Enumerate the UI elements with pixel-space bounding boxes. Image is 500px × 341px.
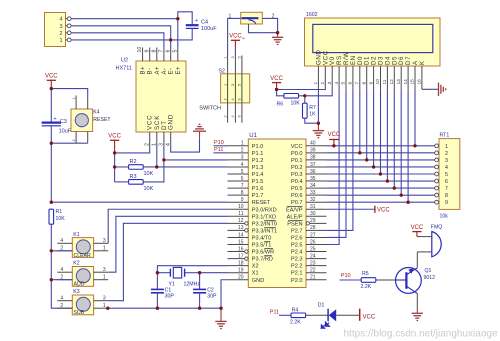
wire VCC rail corner to R3 — [115, 181, 129, 183]
node: VCC/K4/C3 top — [50, 87, 53, 90]
svg-text:4: 4 — [60, 267, 63, 273]
svg-text:A+: A+ — [155, 66, 161, 74]
svg-text:1: 1 — [103, 246, 106, 252]
wire C3 bottom to reset node — [50, 126, 52, 203]
resistor R6 10K — [277, 94, 301, 108]
node: K2 pin2 on rail — [50, 278, 53, 281]
svg-text:17: 17 — [238, 253, 244, 259]
nodes: D0-D7 junctions on P0 rows, A on VCC row — [358, 144, 417, 204]
wire R3 up to DT node — [143, 160, 164, 182]
ground (LCD backlight K, right-pointing) — [439, 83, 446, 96]
U1 left pins 1-20 stubs + numbers + names — [228, 141, 277, 284]
svg-text:+: + — [53, 117, 56, 123]
wire X2 (pin18) to crystal left / C1 — [157, 266, 227, 290]
svg-text:K1: K1 — [73, 232, 79, 238]
svg-text:P2.2: P2.2 — [291, 264, 303, 270]
capacitor C2 30P — [193, 287, 217, 299]
ground (HX711, inverted pyramid) — [193, 124, 206, 138]
wire Q1 collector to ground — [416, 293, 418, 308]
svg-text:31: 31 — [310, 204, 316, 210]
svg-text:D1: D1 — [318, 303, 325, 309]
svg-text:4: 4 — [60, 296, 63, 302]
svg-text:25: 25 — [310, 246, 316, 252]
capacitor C1 30P — [151, 287, 174, 299]
svg-text:3: 3 — [327, 82, 333, 85]
svg-text:P0.1: P0.1 — [291, 158, 303, 164]
svg-text:1: 1 — [241, 141, 244, 147]
svg-text:12MHz: 12MHz — [184, 282, 201, 288]
power VCC port (EA/VP) — [375, 206, 390, 214]
svg-text:P2.7: P2.7 — [291, 228, 303, 234]
svg-text:P1.2: P1.2 — [252, 158, 264, 164]
resistor network RT1 10k — [435, 132, 460, 219]
crystal Y1 12MHz — [157, 267, 200, 287]
svg-text:5: 5 — [445, 172, 448, 178]
wire LCD A down to VCC row — [414, 89, 416, 146]
node: J1.1 / J1.3 / C4- / E- junction — [169, 38, 172, 41]
node: K1 pin2 on rail — [50, 249, 53, 252]
svg-text:FMQ: FMQ — [431, 224, 443, 230]
svg-text:22: 22 — [310, 268, 316, 274]
net label P11 (LED drive) — [270, 309, 291, 315]
svg-text:1: 1 — [59, 38, 62, 44]
wire J1 pin2 to HX711 A- — [71, 33, 164, 48]
svg-text:2: 2 — [59, 31, 62, 37]
node: RESET wire tap — [50, 201, 53, 204]
svg-text:P0.4: P0.4 — [291, 179, 303, 185]
wire rail VCC to C3 — [50, 89, 52, 123]
svg-text:X2: X2 — [252, 264, 259, 270]
svg-text:39: 39 — [310, 148, 316, 154]
svg-text:30: 30 — [310, 211, 316, 217]
svg-text:P10: P10 — [214, 140, 224, 146]
LCD pins 1-16 stubs + rotated names + numbers — [313, 50, 426, 90]
resistor R4 2.2K — [290, 307, 306, 325]
svg-text:5: 5 — [341, 82, 347, 85]
svg-text:34: 34 — [310, 183, 316, 189]
svg-text:5: 5 — [172, 50, 178, 53]
svg-text:R5: R5 — [362, 271, 369, 277]
wire VCC rail down to R2/R3 — [114, 153, 116, 182]
svg-text:S2: S2 — [219, 69, 225, 75]
resistor R7 1K (vertical) — [303, 103, 317, 118]
button K1 CLEAR — [57, 232, 108, 259]
svg-text:P3.6/WR: P3.6/WR — [252, 250, 274, 256]
svg-text:2: 2 — [241, 148, 244, 154]
svg-text:P3.7/RD: P3.7/RD — [252, 257, 273, 263]
svg-text:7: 7 — [241, 183, 244, 189]
slide switch S2 (power jumper) — [229, 12, 275, 39]
svg-text:P0.6: P0.6 — [291, 193, 303, 199]
svg-text:10K: 10K — [56, 216, 66, 222]
ground (Q1 collector) — [412, 309, 423, 321]
svg-text:VCC: VCC — [45, 73, 58, 79]
svg-text:2: 2 — [72, 139, 76, 141]
svg-text:RESET: RESET — [252, 200, 271, 206]
svg-text:3: 3 — [59, 24, 62, 30]
svg-text:P10: P10 — [341, 273, 351, 279]
wire jumper pin2 down to ground — [262, 18, 277, 32]
node: VCC stem on pin40 row — [332, 144, 335, 147]
svg-text:9: 9 — [445, 200, 448, 206]
wire R7 bottom to LCD GND / ground — [305, 118, 319, 123]
svg-text:4: 4 — [165, 143, 171, 146]
wires P0.0-P0.7 rows to RT1 pins 2-9 — [327, 153, 435, 202]
wire HX711 SCK down — [156, 147, 158, 167]
svg-text:7: 7 — [159, 50, 165, 53]
buzzer FMQ — [417, 224, 442, 256]
resistor R3 10K — [129, 174, 154, 192]
node: C3/K4 bottom reset node — [50, 142, 53, 145]
wire Q1 emitter up to FMQ — [416, 252, 418, 268]
svg-text:12: 12 — [238, 218, 244, 224]
svg-text:CLEAR: CLEAR — [74, 253, 92, 259]
svg-text:38: 38 — [310, 155, 316, 161]
svg-text:P2.6: P2.6 — [291, 235, 303, 241]
svg-text:7: 7 — [445, 186, 448, 192]
svg-text:26: 26 — [310, 239, 316, 245]
svg-text:P2.3: P2.3 — [291, 257, 303, 263]
svg-text:GND: GND — [252, 278, 264, 284]
svg-text:K2: K2 — [73, 261, 79, 267]
svg-text:9: 9 — [241, 197, 244, 203]
svg-text:P1.4: P1.4 — [252, 172, 264, 178]
svg-text:C4: C4 — [201, 20, 208, 26]
svg-text:U1: U1 — [249, 133, 257, 139]
wire K3 pin1 to GND rail — [108, 307, 221, 309]
svg-text:C1: C1 — [165, 287, 172, 293]
svg-text:P0.2: P0.2 — [291, 165, 303, 171]
node: R6 / R7 / V0 — [303, 94, 306, 97]
wire LCD R/W to U1 P2.6 — [327, 89, 347, 237]
svg-text:3: 3 — [231, 56, 235, 58]
svg-text:9: 9 — [144, 50, 150, 53]
svg-text:4: 4 — [59, 17, 62, 23]
svg-text:C2: C2 — [207, 287, 214, 293]
svg-text:P11: P11 — [214, 147, 223, 153]
svg-text:8: 8 — [361, 82, 367, 85]
svg-text:37: 37 — [310, 162, 316, 168]
resistor R1 10K (vertical) — [49, 209, 65, 224]
svg-text:P3.3/INT1: P3.3/INT1 — [252, 228, 277, 234]
capacitor C4 100uF — [186, 18, 217, 32]
svg-text:14: 14 — [403, 79, 409, 85]
svg-text:VCC: VCC — [377, 207, 390, 213]
power VCC symbol (U1 pin 40) — [328, 132, 341, 146]
switch S2 (6-pin DIP) SWITCH — [199, 56, 249, 123]
power VCC symbol (switch S1 pin3) — [229, 34, 242, 48]
svg-text:SCK: SCK — [154, 115, 161, 130]
svg-text:E+: E+ — [176, 66, 182, 74]
svg-text:29: 29 — [310, 218, 316, 224]
wire K3 pin3 to U1 P3.2 — [108, 223, 227, 300]
svg-text:X1: X1 — [252, 271, 259, 277]
svg-text:1: 1 — [445, 144, 448, 150]
svg-text:R7: R7 — [309, 105, 316, 111]
svg-text:10: 10 — [375, 79, 381, 85]
wire VCC node to LCD VCC pin2 — [277, 88, 326, 90]
wire J1 pin4 to HX711 E+ and C4+ — [71, 19, 178, 48]
wire LCD EN to U1 P2.7 — [327, 89, 353, 230]
svg-text:2: 2 — [60, 303, 63, 309]
wire VCC rail to R2 — [115, 166, 129, 168]
wires LCD D0-D7 down to P0.0-P0.7 rows — [360, 89, 408, 202]
svg-text:7: 7 — [355, 82, 361, 85]
svg-text:4: 4 — [231, 115, 235, 117]
svg-text:K: K — [419, 60, 426, 65]
svg-text:6: 6 — [348, 82, 354, 85]
resistor R5 2.2K — [361, 271, 376, 290]
wire HX711 GND to ground — [171, 139, 200, 152]
svg-text:R2: R2 — [130, 159, 137, 165]
svg-text:P11: P11 — [270, 309, 279, 315]
svg-text:VCC: VCC — [270, 76, 283, 82]
svg-text:33: 33 — [310, 190, 316, 196]
svg-text:20: 20 — [238, 275, 244, 281]
svg-text:6: 6 — [241, 176, 244, 182]
svg-text:30P: 30P — [165, 294, 175, 300]
svg-text:P2.0: P2.0 — [291, 278, 303, 284]
svg-text:P1.6: P1.6 — [252, 186, 264, 192]
svg-text:P3.5/T1: P3.5/T1 — [252, 243, 272, 249]
svg-text:11: 11 — [382, 79, 388, 84]
svg-text:15: 15 — [238, 239, 244, 245]
svg-text:23: 23 — [310, 260, 316, 266]
svg-text:4: 4 — [334, 82, 340, 85]
svg-text:EA/VP: EA/VP — [286, 207, 303, 213]
svg-text:8: 8 — [241, 190, 244, 196]
svg-text:+: + — [195, 18, 198, 24]
svg-text:K4: K4 — [93, 109, 99, 115]
U2 top pins B+ B- A+ A- E- E+ (pins 10..5) — [137, 47, 182, 75]
svg-text:16: 16 — [238, 246, 244, 252]
wire reset node to U1 RESET pin 9 — [51, 201, 227, 203]
node: C1 on rail — [156, 307, 159, 310]
svg-text:13: 13 — [396, 79, 402, 85]
svg-text:24: 24 — [310, 253, 316, 259]
svg-text:1: 1 — [313, 82, 319, 85]
svg-text:P2.4: P2.4 — [291, 250, 303, 256]
node: crystal right / X1 / C2 — [198, 271, 201, 274]
svg-text:B-: B- — [148, 68, 154, 75]
wire J1 pin1 / C4 bottom / HX711 E- — [71, 28, 192, 47]
node: R2 left on rail — [113, 165, 116, 168]
svg-text:6: 6 — [238, 115, 242, 117]
svg-text:R1: R1 — [56, 209, 63, 215]
svg-text:8: 8 — [445, 193, 448, 199]
svg-text:13: 13 — [238, 225, 244, 231]
wire R7 top to R6/V0 node — [304, 96, 306, 103]
svg-text:VCC: VCC — [229, 34, 242, 40]
svg-text:35: 35 — [310, 176, 316, 182]
svg-text:RT1: RT1 — [440, 132, 450, 138]
svg-text:3: 3 — [241, 155, 244, 161]
power VCC symbol (reset circuit) — [45, 73, 58, 88]
wire VCC row pin40 to RT1 pin1 — [327, 145, 435, 147]
svg-text:R4: R4 — [292, 307, 299, 313]
wire LCD K pin16 to ground — [422, 88, 438, 90]
svg-text:2: 2 — [320, 82, 326, 85]
svg-text:B+: B+ — [141, 66, 147, 74]
svg-text:P0.5: P0.5 — [291, 186, 303, 192]
svg-text:P3.0/RXD: P3.0/RXD — [252, 207, 277, 213]
wire D1 to VCC port — [336, 314, 360, 316]
svg-text:4: 4 — [60, 238, 63, 244]
svg-text:2: 2 — [223, 115, 227, 117]
node: K3 pin1 / rail — [106, 307, 109, 310]
svg-text:P1.3: P1.3 — [252, 165, 264, 171]
power VCC symbol (buzzer) — [411, 225, 424, 236]
button K2 ADD — [57, 261, 108, 288]
wire R6 to V0 — [299, 89, 333, 96]
LCD module 1602 body — [305, 12, 441, 66]
power VCC symbol (HX711 supply) — [108, 134, 121, 153]
wire C2 bottom to gnd rail — [199, 293, 201, 308]
wire R2 to U1 P1.3 (SCK net) — [143, 166, 227, 168]
svg-text:VCC: VCC — [328, 132, 341, 138]
svg-text:ALE/P: ALE/P — [287, 214, 303, 220]
svg-text:36: 36 — [310, 169, 316, 175]
net label P10 (buzzer drive) — [340, 273, 362, 280]
svg-text:18: 18 — [238, 260, 244, 266]
svg-text:P0.0: P0.0 — [291, 151, 303, 157]
svg-text:19: 19 — [238, 268, 244, 274]
wire jumper pin1 down to switch S1 pin1 — [228, 18, 241, 73]
svg-text:5: 5 — [238, 84, 242, 86]
svg-text:VCC: VCC — [147, 115, 154, 130]
wire HX711 DT down — [163, 147, 165, 160]
svg-text:P1.0: P1.0 — [252, 144, 264, 150]
svg-text:3: 3 — [231, 84, 235, 86]
svg-text:3: 3 — [103, 296, 106, 302]
svg-text:100uF: 100uF — [201, 26, 217, 32]
svg-text:P1.1: P1.1 — [252, 151, 264, 157]
svg-text:P2.5: P2.5 — [291, 243, 303, 249]
svg-text:A-: A- — [162, 68, 168, 75]
svg-text:10: 10 — [238, 204, 244, 210]
svg-text:6: 6 — [445, 179, 448, 185]
button K3 SUB — [57, 289, 108, 316]
power VCC symbol (LCD / R6) — [270, 76, 283, 90]
svg-text:VCC: VCC — [108, 134, 121, 140]
svg-text:P3.4/T0: P3.4/T0 — [252, 235, 272, 241]
wire LCD RS to U1 P2.5 — [327, 89, 340, 244]
svg-text:10K: 10K — [144, 186, 154, 192]
wire DT to U1 P1.2 — [164, 159, 228, 161]
svg-text:P0.7: P0.7 — [291, 200, 303, 206]
wire X1 (pin19) to crystal right / C2 — [200, 273, 228, 290]
svg-text:6: 6 — [238, 98, 242, 100]
MCU U1 AT89C51 body — [248, 133, 306, 288]
svg-text:1: 1 — [72, 97, 76, 99]
svg-text:ADD: ADD — [74, 282, 85, 288]
wire LCD GND pin1 down — [317, 89, 319, 123]
connector J1 (4-pin load cell header) — [45, 13, 72, 47]
svg-text:U2: U2 — [121, 58, 128, 64]
svg-text:2.2K: 2.2K — [361, 284, 372, 290]
svg-text:P1.7: P1.7 — [252, 193, 264, 199]
svg-text:P0.3: P0.3 — [291, 172, 303, 178]
svg-text:RESET: RESET — [93, 117, 111, 123]
svg-text:9: 9 — [368, 82, 374, 85]
node: SCK joins R2 wire — [155, 165, 158, 168]
svg-text:1: 1 — [223, 84, 227, 86]
svg-text:2: 2 — [445, 151, 448, 157]
svg-text:3: 3 — [159, 143, 165, 146]
svg-text:1: 1 — [103, 303, 106, 309]
svg-text:P2.1: P2.1 — [291, 271, 303, 277]
svg-text:5: 5 — [241, 169, 244, 175]
svg-text:SUB: SUB — [74, 310, 85, 316]
wire U1 GND (pin20) down to rail — [221, 280, 228, 308]
svg-text:15: 15 — [410, 79, 416, 85]
node: C2 on rail — [198, 307, 201, 310]
svg-text:4: 4 — [241, 162, 244, 168]
svg-text:1602: 1602 — [306, 12, 318, 18]
node: crystal left / X2 — [156, 271, 159, 274]
svg-text:21: 21 — [310, 275, 316, 281]
svg-text:10uF: 10uF — [59, 129, 72, 135]
wire K2 pin3 to U1 P3.1 — [108, 216, 227, 272]
svg-text:1: 1 — [151, 143, 157, 146]
ground (power switch) — [272, 33, 283, 45]
svg-text:4: 4 — [231, 98, 235, 100]
U1 right pins 40-21 stubs + numbers + names — [286, 141, 326, 284]
svg-text:https://blog.csdn.net/jianghux: https://blog.csdn.net/jianghuxiaoge — [344, 329, 498, 340]
wire C1 bottom to gnd rail — [156, 293, 158, 308]
svg-text:3: 3 — [103, 238, 106, 244]
net label P10 at U1 pin1 — [214, 140, 228, 146]
node: R7 / LCD GND / ground — [317, 122, 320, 125]
svg-text:E-: E- — [169, 68, 175, 75]
svg-text:28: 28 — [310, 225, 316, 231]
svg-text:40: 40 — [310, 141, 316, 147]
wire K2 pin2 to rail — [51, 279, 72, 281]
wire VCC to K4 top — [51, 89, 87, 96]
svg-text:6: 6 — [165, 50, 171, 53]
wire VCC down to S1 pin3 — [234, 47, 236, 74]
node: jumper pin2 / common / ground — [276, 31, 279, 34]
svg-text:P3.1/TXD: P3.1/TXD — [252, 214, 276, 220]
svg-text:5: 5 — [238, 56, 242, 58]
wire R1 bottom down button rail — [51, 224, 72, 308]
resistor R2 10K — [129, 159, 154, 177]
svg-text:2.2K: 2.2K — [290, 320, 301, 326]
wire K4 bottom to reset node — [51, 142, 87, 144]
power VCC port (LED) — [360, 309, 376, 321]
wire EA/VP (pin31) to VCC port — [327, 208, 375, 210]
wire R5 to Q1 base — [376, 279, 396, 281]
svg-text:2: 2 — [223, 98, 227, 100]
transistor Q1 9012 (PNP) — [396, 268, 436, 294]
node: DT joins R3 wire — [162, 158, 165, 161]
svg-text:10k: 10k — [440, 214, 449, 220]
LED D1 (pointing left) — [318, 303, 336, 329]
svg-text:GND: GND — [168, 114, 175, 130]
wire K1 pin2 to rail — [51, 250, 72, 252]
op-amp U2 HX711 body — [116, 58, 187, 133]
wire HX711 VCC pin to VCC rail — [115, 147, 150, 153]
svg-text:11: 11 — [238, 211, 243, 217]
svg-text:14: 14 — [238, 232, 244, 238]
svg-text:1: 1 — [223, 56, 227, 58]
svg-text:10K: 10K — [291, 100, 301, 106]
svg-text:R6: R6 — [277, 101, 284, 107]
svg-text:VCC: VCC — [411, 225, 424, 231]
svg-text:Q1: Q1 — [425, 268, 432, 274]
wire VCC node down to R6 — [277, 90, 284, 96]
svg-text:P1.5: P1.5 — [252, 179, 264, 185]
